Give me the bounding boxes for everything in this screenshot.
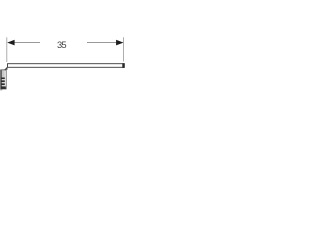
svg-text:35: 35 bbox=[57, 39, 66, 50]
